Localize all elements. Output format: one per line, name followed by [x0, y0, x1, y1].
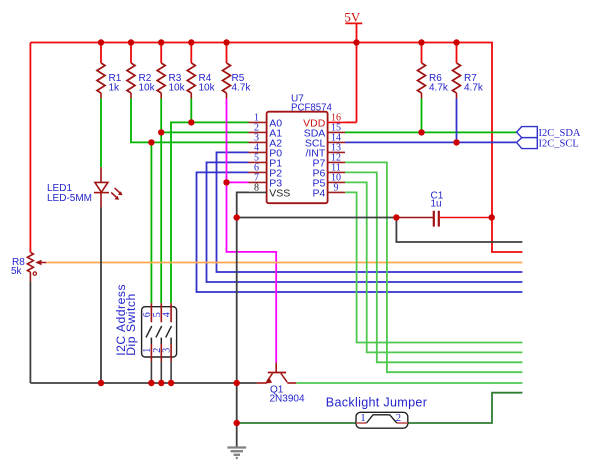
svg-text:P4: P4 [312, 187, 325, 199]
svg-text:PCF8574: PCF8574 [291, 103, 333, 114]
svg-text:I2C_SCL: I2C_SCL [539, 139, 579, 150]
svg-text:1: 1 [360, 412, 366, 424]
svg-text:I2C_SDA: I2C_SDA [539, 128, 581, 139]
svg-text:Backlight Jumper: Backlight Jumper [326, 396, 427, 410]
svg-text:10k: 10k [139, 83, 156, 94]
svg-text:3: 3 [162, 348, 173, 353]
svg-text:Dip Switch: Dip Switch [124, 293, 138, 356]
svg-text:2N3904: 2N3904 [270, 394, 305, 405]
svg-text:8: 8 [254, 183, 259, 194]
svg-text:LED-5MM: LED-5MM [47, 193, 92, 204]
svg-text:VSS: VSS [269, 187, 290, 199]
svg-text:10k: 10k [169, 83, 186, 94]
svg-text:5k: 5k [11, 266, 23, 277]
svg-text:1k: 1k [109, 83, 121, 94]
svg-text:9: 9 [334, 183, 339, 194]
svg-text:4.7k: 4.7k [464, 83, 484, 94]
svg-text:4.7k: 4.7k [429, 83, 449, 94]
svg-text:4: 4 [162, 312, 173, 317]
svg-text:1u: 1u [431, 199, 442, 210]
svg-text:4.7k: 4.7k [232, 83, 252, 94]
svg-text:5V: 5V [344, 10, 361, 25]
svg-text:2: 2 [396, 412, 402, 424]
svg-text:10k: 10k [199, 83, 216, 94]
